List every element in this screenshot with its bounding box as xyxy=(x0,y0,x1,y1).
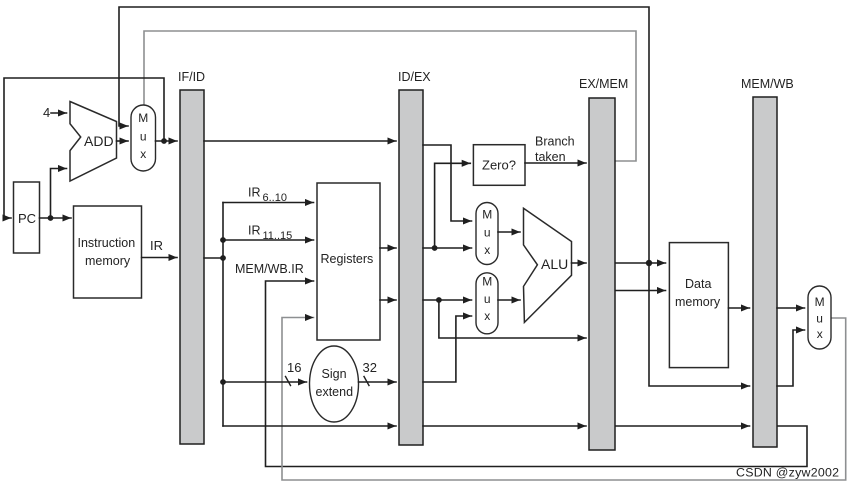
svg-text:4: 4 xyxy=(43,105,50,120)
adder ADD xyxy=(70,102,117,182)
svg-text:MEM/WB: MEM/WB xyxy=(741,77,794,91)
svg-text:memory: memory xyxy=(85,254,131,268)
svg-text:u: u xyxy=(484,226,491,240)
wire branch-taken select (gray, EX/MEM to PC mux top) xyxy=(144,31,636,161)
node A junction xyxy=(432,245,438,251)
node ALU-out junction xyxy=(646,260,652,266)
node mux-out junction xyxy=(161,138,167,144)
wire IR out of IF/ID xyxy=(204,257,223,259)
node PC-out junction xyxy=(48,215,54,221)
wire constant 4 into ADD xyxy=(51,112,67,114)
node IR junction 1 xyxy=(220,237,226,243)
wire immediate into Sign extend xyxy=(223,381,307,383)
svg-text:IF/ID: IF/ID xyxy=(178,70,205,84)
wire mux1 output to ALU xyxy=(498,231,520,233)
wire A from ID/EX to ALU mux xyxy=(423,247,472,249)
mux ALU input 1 xyxy=(476,203,498,265)
wire A up to Zero? xyxy=(435,163,471,248)
node IR junction 3 xyxy=(220,379,226,385)
pipeline register MEM/WB xyxy=(741,77,794,447)
memory Instruction memory xyxy=(74,206,142,298)
svg-text:u: u xyxy=(140,130,147,144)
wire IR carry EX/MEM to MEM/WB xyxy=(616,425,750,427)
wire PC mux output into IF/ID xyxy=(156,140,178,142)
wire load data MEM/WB to WB mux xyxy=(777,307,805,309)
wire B bypass to EX/MEM xyxy=(439,300,586,338)
svg-text:M: M xyxy=(482,275,492,289)
svg-text:ADD: ADD xyxy=(84,133,114,149)
wire Zero? output to EX/MEM xyxy=(525,162,586,164)
svg-text:M: M xyxy=(482,208,492,222)
register PC xyxy=(14,182,40,253)
svg-text:x: x xyxy=(484,243,490,257)
wire Data memory output to MEM/WB xyxy=(729,307,750,309)
mux ALU input 2 xyxy=(476,273,498,334)
svg-text:Branch: Branch xyxy=(535,135,575,149)
svg-text:ALU: ALU xyxy=(541,256,568,272)
svg-text:Zero?: Zero? xyxy=(482,158,516,173)
svg-text:MEM/WB.IR: MEM/WB.IR xyxy=(235,262,304,276)
wire PC-mux output feedback to PC xyxy=(4,78,164,218)
wire ADD output to PC mux xyxy=(117,140,129,142)
bus slash 16 xyxy=(286,377,291,386)
svg-text:CSDN @zyw2002: CSDN @zyw2002 xyxy=(736,466,839,480)
svg-text:Sign: Sign xyxy=(322,367,347,381)
pipeline register ID/EX xyxy=(398,70,431,445)
wire ALU-out bypass down to MEM/WB xyxy=(649,263,750,386)
wire mux2 output to ALU xyxy=(498,299,520,301)
comparator Zero? xyxy=(473,145,525,186)
svg-text:x: x xyxy=(817,327,823,341)
svg-text:memory: memory xyxy=(675,295,721,309)
node B junction xyxy=(436,297,442,303)
wire ALU output to EX/MEM xyxy=(572,262,587,264)
svg-text:PC: PC xyxy=(18,211,36,226)
wire IR carry ID/EX to EX/MEM xyxy=(423,425,586,427)
svg-text:taken: taken xyxy=(535,150,566,164)
wire branch-target feedback (EX/MEM ALU-out up to PC mux) xyxy=(119,7,649,260)
svg-text:IR: IR xyxy=(150,238,163,253)
wire Registers read data B to ID/EX xyxy=(380,299,396,301)
wire MEM/WB.IR feedback into Registers write-number xyxy=(266,281,808,467)
svg-text:M: M xyxy=(138,111,148,125)
pipeline register IF/ID xyxy=(178,70,205,444)
wire PC to Instruction memory xyxy=(40,217,72,219)
svg-text:Data: Data xyxy=(685,277,711,291)
mux PC-source xyxy=(131,105,156,171)
register file Registers xyxy=(317,183,380,340)
wire NPC IF/ID to ID/EX xyxy=(204,140,396,142)
wire IR11..15 to Registers xyxy=(223,239,314,241)
wire ALU result MEM/WB to WB mux xyxy=(777,330,805,386)
label IR11..15 xyxy=(248,224,292,243)
label IR6..10 xyxy=(248,186,287,205)
svg-text:IR: IR xyxy=(248,186,261,200)
mux write-back xyxy=(808,286,831,349)
wire IR fan vertical xyxy=(222,203,224,427)
svg-text:EX/MEM: EX/MEM xyxy=(579,77,628,91)
wire IR bottom carry to ID/EX xyxy=(223,425,396,427)
wire Registers read data A to ID/EX xyxy=(380,247,396,249)
wire B from ID/EX to ALU mux 2 xyxy=(423,299,472,301)
svg-text:u: u xyxy=(816,312,823,326)
svg-text:ID/EX: ID/EX xyxy=(398,70,431,84)
svg-text:u: u xyxy=(484,292,491,306)
svg-text:extend: extend xyxy=(316,385,354,399)
wire IR from instruction memory to IF/ID xyxy=(142,257,177,259)
svg-text:32: 32 xyxy=(363,360,377,375)
svg-text:Instruction: Instruction xyxy=(78,236,136,250)
svg-text:IR: IR xyxy=(248,224,261,238)
wire PC junction up to ADD input xyxy=(51,169,67,219)
wire sign-extended immediate to ID/EX xyxy=(359,381,397,383)
wire IR6..10 to Registers xyxy=(223,202,314,204)
svg-text:Registers: Registers xyxy=(321,252,374,266)
wire ALU-out from EX/MEM to Data memory xyxy=(616,262,666,264)
ALU xyxy=(524,208,572,322)
node IR junction 2 xyxy=(220,255,226,261)
wire store data EX/MEM to Data memory xyxy=(616,290,666,292)
label Branch taken xyxy=(535,135,575,165)
bus slash 32 xyxy=(364,377,369,386)
pipeline register EX/MEM xyxy=(579,77,628,450)
wire write-back data (gray) mux to Registers write-data xyxy=(282,318,846,481)
sign extender xyxy=(310,346,359,422)
wire immediate from ID/EX to ALU mux 2 lower input xyxy=(423,316,472,382)
svg-text:M: M xyxy=(815,295,825,309)
svg-text:x: x xyxy=(140,147,146,161)
svg-text:x: x xyxy=(484,309,490,323)
memory Data memory xyxy=(669,243,728,368)
svg-text:16: 16 xyxy=(287,360,301,375)
wire NPC from ID/EX to branch mux input xyxy=(423,145,472,221)
